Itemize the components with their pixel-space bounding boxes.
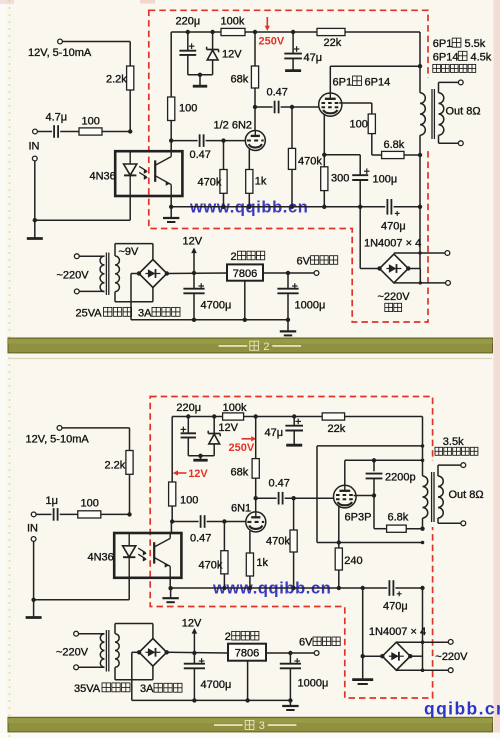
svg-text:0.47: 0.47 <box>190 149 211 161</box>
svg-text:7806: 7806 <box>233 268 257 280</box>
svg-text:1N4007 × 4: 1N4007 × 4 <box>369 626 426 638</box>
svg-text:1k: 1k <box>255 176 267 188</box>
svg-text:470μ: 470μ <box>383 601 408 613</box>
svg-text:Out 8Ω: Out 8Ω <box>446 106 481 118</box>
svg-text:6P1: 6P1 <box>333 77 353 89</box>
svg-text:100: 100 <box>179 103 197 115</box>
svg-text:250V: 250V <box>259 36 285 48</box>
svg-text:2.2k: 2.2k <box>105 460 126 472</box>
svg-text:1μ: 1μ <box>46 495 58 507</box>
svg-text:68k: 68k <box>231 74 249 86</box>
svg-text:IN: IN <box>29 141 40 153</box>
svg-text:4.7μ: 4.7μ <box>46 112 68 124</box>
svg-text:100k: 100k <box>221 16 245 28</box>
svg-text:470k: 470k <box>198 176 222 188</box>
svg-text:6N1: 6N1 <box>231 502 251 514</box>
svg-text:4700μ: 4700μ <box>201 679 232 691</box>
svg-text:6P1: 6P1 <box>433 38 453 50</box>
svg-text:1000μ: 1000μ <box>295 300 326 312</box>
svg-text:12V: 12V <box>182 617 202 629</box>
svg-text:12V, 5-10mA: 12V, 5-10mA <box>28 47 92 59</box>
svg-text:240: 240 <box>344 555 362 567</box>
svg-text:6.8k: 6.8k <box>388 511 409 523</box>
svg-text:qqibb.cn: qqibb.cn <box>424 699 500 719</box>
svg-text:470k: 470k <box>266 535 290 547</box>
svg-text:470μ: 470μ <box>381 221 406 233</box>
svg-text:250V: 250V <box>229 442 255 454</box>
svg-text:IN: IN <box>27 522 38 534</box>
svg-text:12V, 5-10mA: 12V, 5-10mA <box>26 433 90 445</box>
svg-text:12V: 12V <box>218 422 238 434</box>
svg-text:0.47: 0.47 <box>267 87 288 99</box>
svg-text:~220V: ~220V <box>56 646 89 658</box>
svg-text:35VA: 35VA <box>74 683 101 695</box>
svg-text:25VA: 25VA <box>76 307 103 319</box>
svg-text:470k: 470k <box>298 156 322 168</box>
svg-text:~9V: ~9V <box>119 246 140 258</box>
svg-text:Out 8Ω: Out 8Ω <box>449 489 484 501</box>
svg-text:6P14: 6P14 <box>365 77 391 89</box>
svg-text:220μ: 220μ <box>176 16 201 28</box>
svg-text:4N36: 4N36 <box>88 552 114 564</box>
svg-text:0.47: 0.47 <box>190 532 211 544</box>
svg-text:100: 100 <box>350 119 368 131</box>
svg-text:1N4007 × 4: 1N4007 × 4 <box>364 237 421 249</box>
svg-text:12V: 12V <box>188 468 208 480</box>
svg-text:22k: 22k <box>324 37 342 49</box>
svg-text:0.47: 0.47 <box>269 478 290 490</box>
svg-text:2: 2 <box>263 341 269 353</box>
svg-text:220μ: 220μ <box>176 402 201 414</box>
svg-text:2: 2 <box>225 631 231 643</box>
svg-text:1000μ: 1000μ <box>298 678 329 690</box>
svg-text:1k: 1k <box>256 557 268 569</box>
svg-text:47μ: 47μ <box>304 52 323 64</box>
svg-text:7806: 7806 <box>235 648 259 660</box>
svg-text:2200p: 2200p <box>385 472 416 484</box>
svg-text:6V: 6V <box>297 255 311 267</box>
svg-text:470k: 470k <box>199 559 223 571</box>
svg-text:4N36: 4N36 <box>90 171 116 183</box>
svg-text:~220V: ~220V <box>378 291 411 303</box>
svg-text:68k: 68k <box>231 467 249 479</box>
svg-text:4700μ: 4700μ <box>201 300 232 312</box>
svg-text:3.5k: 3.5k <box>443 436 464 448</box>
svg-text:3A: 3A <box>138 307 152 319</box>
svg-text:3A: 3A <box>140 683 154 695</box>
svg-text:6P14: 6P14 <box>433 51 459 63</box>
svg-text:47μ: 47μ <box>265 427 284 439</box>
svg-text:4.5k: 4.5k <box>471 51 492 63</box>
svg-text:100: 100 <box>82 116 100 128</box>
svg-text:5.5k: 5.5k <box>465 38 486 50</box>
svg-text:100μ: 100μ <box>373 174 398 186</box>
svg-text:~220V: ~220V <box>57 270 90 282</box>
svg-text:300: 300 <box>331 172 349 184</box>
svg-text:6P3P: 6P3P <box>345 511 372 523</box>
svg-text:~220V: ~220V <box>435 651 468 663</box>
svg-text:3: 3 <box>259 720 265 732</box>
svg-text:22k: 22k <box>328 423 346 435</box>
svg-text:2.2k: 2.2k <box>106 74 127 86</box>
svg-text:6V: 6V <box>299 637 313 649</box>
svg-text:100k: 100k <box>223 402 247 414</box>
svg-text:2: 2 <box>231 251 237 263</box>
svg-text:100: 100 <box>81 498 99 510</box>
svg-text:12V: 12V <box>183 236 203 248</box>
svg-text:6.8k: 6.8k <box>384 139 405 151</box>
svg-text:100: 100 <box>180 495 198 507</box>
svg-text:12V: 12V <box>222 49 242 61</box>
svg-text:1/2 6N2: 1/2 6N2 <box>214 120 253 132</box>
